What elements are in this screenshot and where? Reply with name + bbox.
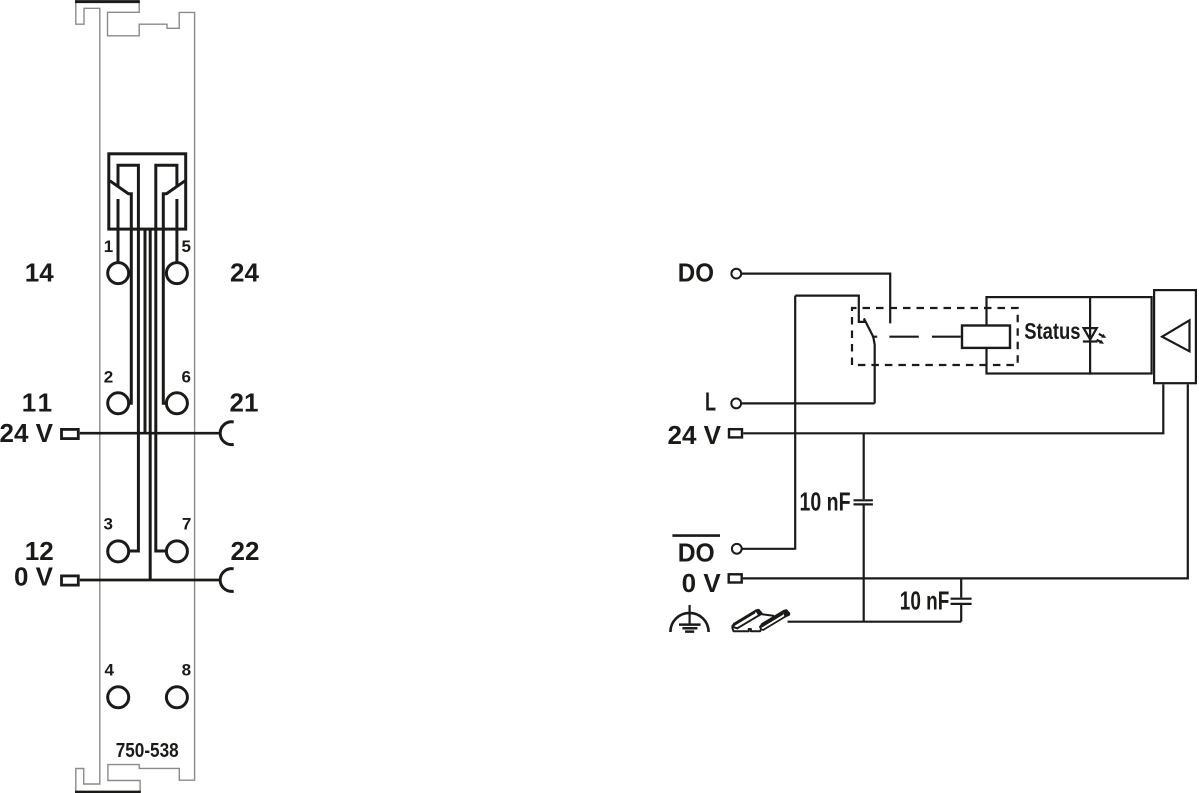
terminal 3 [108, 541, 129, 562]
svg-text:Status: Status [1024, 318, 1080, 344]
svg-text:DO: DO [678, 537, 715, 567]
DO-bar overline [672, 534, 720, 537]
terminal 1 [108, 263, 129, 284]
svg-text:7: 7 [182, 514, 191, 533]
ground rail wire [788, 621, 962, 623]
svg-text:22: 22 [231, 536, 260, 566]
terminal 2 [108, 393, 129, 414]
bus connector triangle [1162, 320, 1189, 351]
relay actuator dashed link [872, 336, 961, 338]
bus wire 24V [144, 229, 147, 433]
module bottom bar [75, 791, 141, 793]
terminal 7 [166, 541, 187, 562]
svg-text:750-538: 750-538 [116, 740, 179, 762]
node L terminal circle [731, 399, 741, 409]
LED arrow 2 [1097, 340, 1101, 342]
0V feed line [80, 579, 221, 582]
DIN rail icon [732, 610, 789, 631]
LED arrow 1 [1099, 334, 1103, 336]
relay coil K1 [962, 326, 1010, 348]
svg-text:24 V: 24 V [668, 420, 722, 450]
capacitor C2 top lead [960, 578, 962, 597]
node DO-bar terminal circle [732, 544, 742, 554]
ground symbol bars [679, 625, 701, 632]
ground symbol stem [688, 605, 690, 625]
svg-text:6: 6 [181, 367, 190, 386]
wire L to blade [742, 402, 875, 404]
bus wire 0V [149, 229, 152, 580]
status frame divider / LED wire [1089, 296, 1091, 375]
module top bar [75, 0, 140, 3]
capacitor C2 plates [951, 599, 972, 604]
svg-text:0 V: 0 V [14, 561, 54, 591]
0V female arc [220, 569, 234, 592]
svg-text:24 V: 24 V [0, 418, 54, 448]
capacitor C1 bottom lead [863, 506, 865, 622]
module outline right side (gray) [108, 1, 195, 792]
svg-text:10 nF: 10 nF [800, 487, 851, 517]
svg-text:L: L [705, 386, 716, 416]
svg-text:0 V: 0 V [682, 568, 722, 598]
status frame box [987, 297, 1152, 373]
24V male connector box [62, 429, 79, 438]
svg-text:3: 3 [103, 514, 112, 533]
relay frame top and fixed contact [795, 296, 864, 322]
capacitor C1 plates [854, 500, 873, 504]
contact fork right [156, 165, 177, 551]
svg-text:1: 1 [104, 237, 113, 256]
LED cathode bar [1083, 340, 1098, 342]
bus connector box [1154, 290, 1196, 383]
terminal 6 [166, 393, 187, 414]
svg-text:24: 24 [230, 258, 259, 288]
24V connector square [729, 429, 742, 437]
svg-text:2: 2 [104, 367, 113, 386]
wire 0V rail [743, 384, 1188, 578]
contact fork left [118, 165, 138, 551]
svg-text:1: 1 [22, 387, 36, 417]
svg-text:8: 8 [182, 660, 191, 679]
svg-text:1: 1 [38, 387, 52, 417]
switch blade [864, 318, 875, 403]
capacitor C2 bottom lead [960, 605, 962, 622]
relay frame left vertical wire [794, 296, 796, 550]
24V feed line [80, 432, 221, 435]
capacitor C1 top lead [863, 433, 865, 499]
svg-text:5: 5 [181, 237, 190, 256]
0V connector square [729, 574, 742, 582]
terminal 8 [166, 687, 187, 708]
wire DO-bar to relay frame [742, 548, 795, 550]
contact wiper right [163, 181, 184, 403]
terminal 5 [166, 263, 187, 284]
terminal 4 [108, 687, 129, 708]
wire terminal 1 [117, 199, 120, 263]
svg-text:DO: DO [678, 258, 714, 288]
svg-text:10 nF: 10 nF [900, 586, 950, 616]
svg-text:21: 21 [230, 387, 259, 417]
contact wiper left [111, 181, 132, 403]
contact box [109, 154, 186, 229]
svg-text:14: 14 [25, 258, 54, 288]
24V female arc [220, 422, 234, 445]
svg-text:4: 4 [104, 660, 114, 679]
LED triangle [1084, 328, 1097, 340]
relay dashed enclosure [852, 308, 1018, 365]
0V male connector box [62, 576, 79, 585]
wire 24V rail [743, 384, 1163, 433]
wire DO to switch [741, 274, 890, 324]
node DO terminal circle [731, 269, 741, 279]
wire terminal 5 [175, 199, 178, 263]
ground symbol arc [670, 613, 708, 632]
module outline left side (gray) [76, 1, 100, 792]
